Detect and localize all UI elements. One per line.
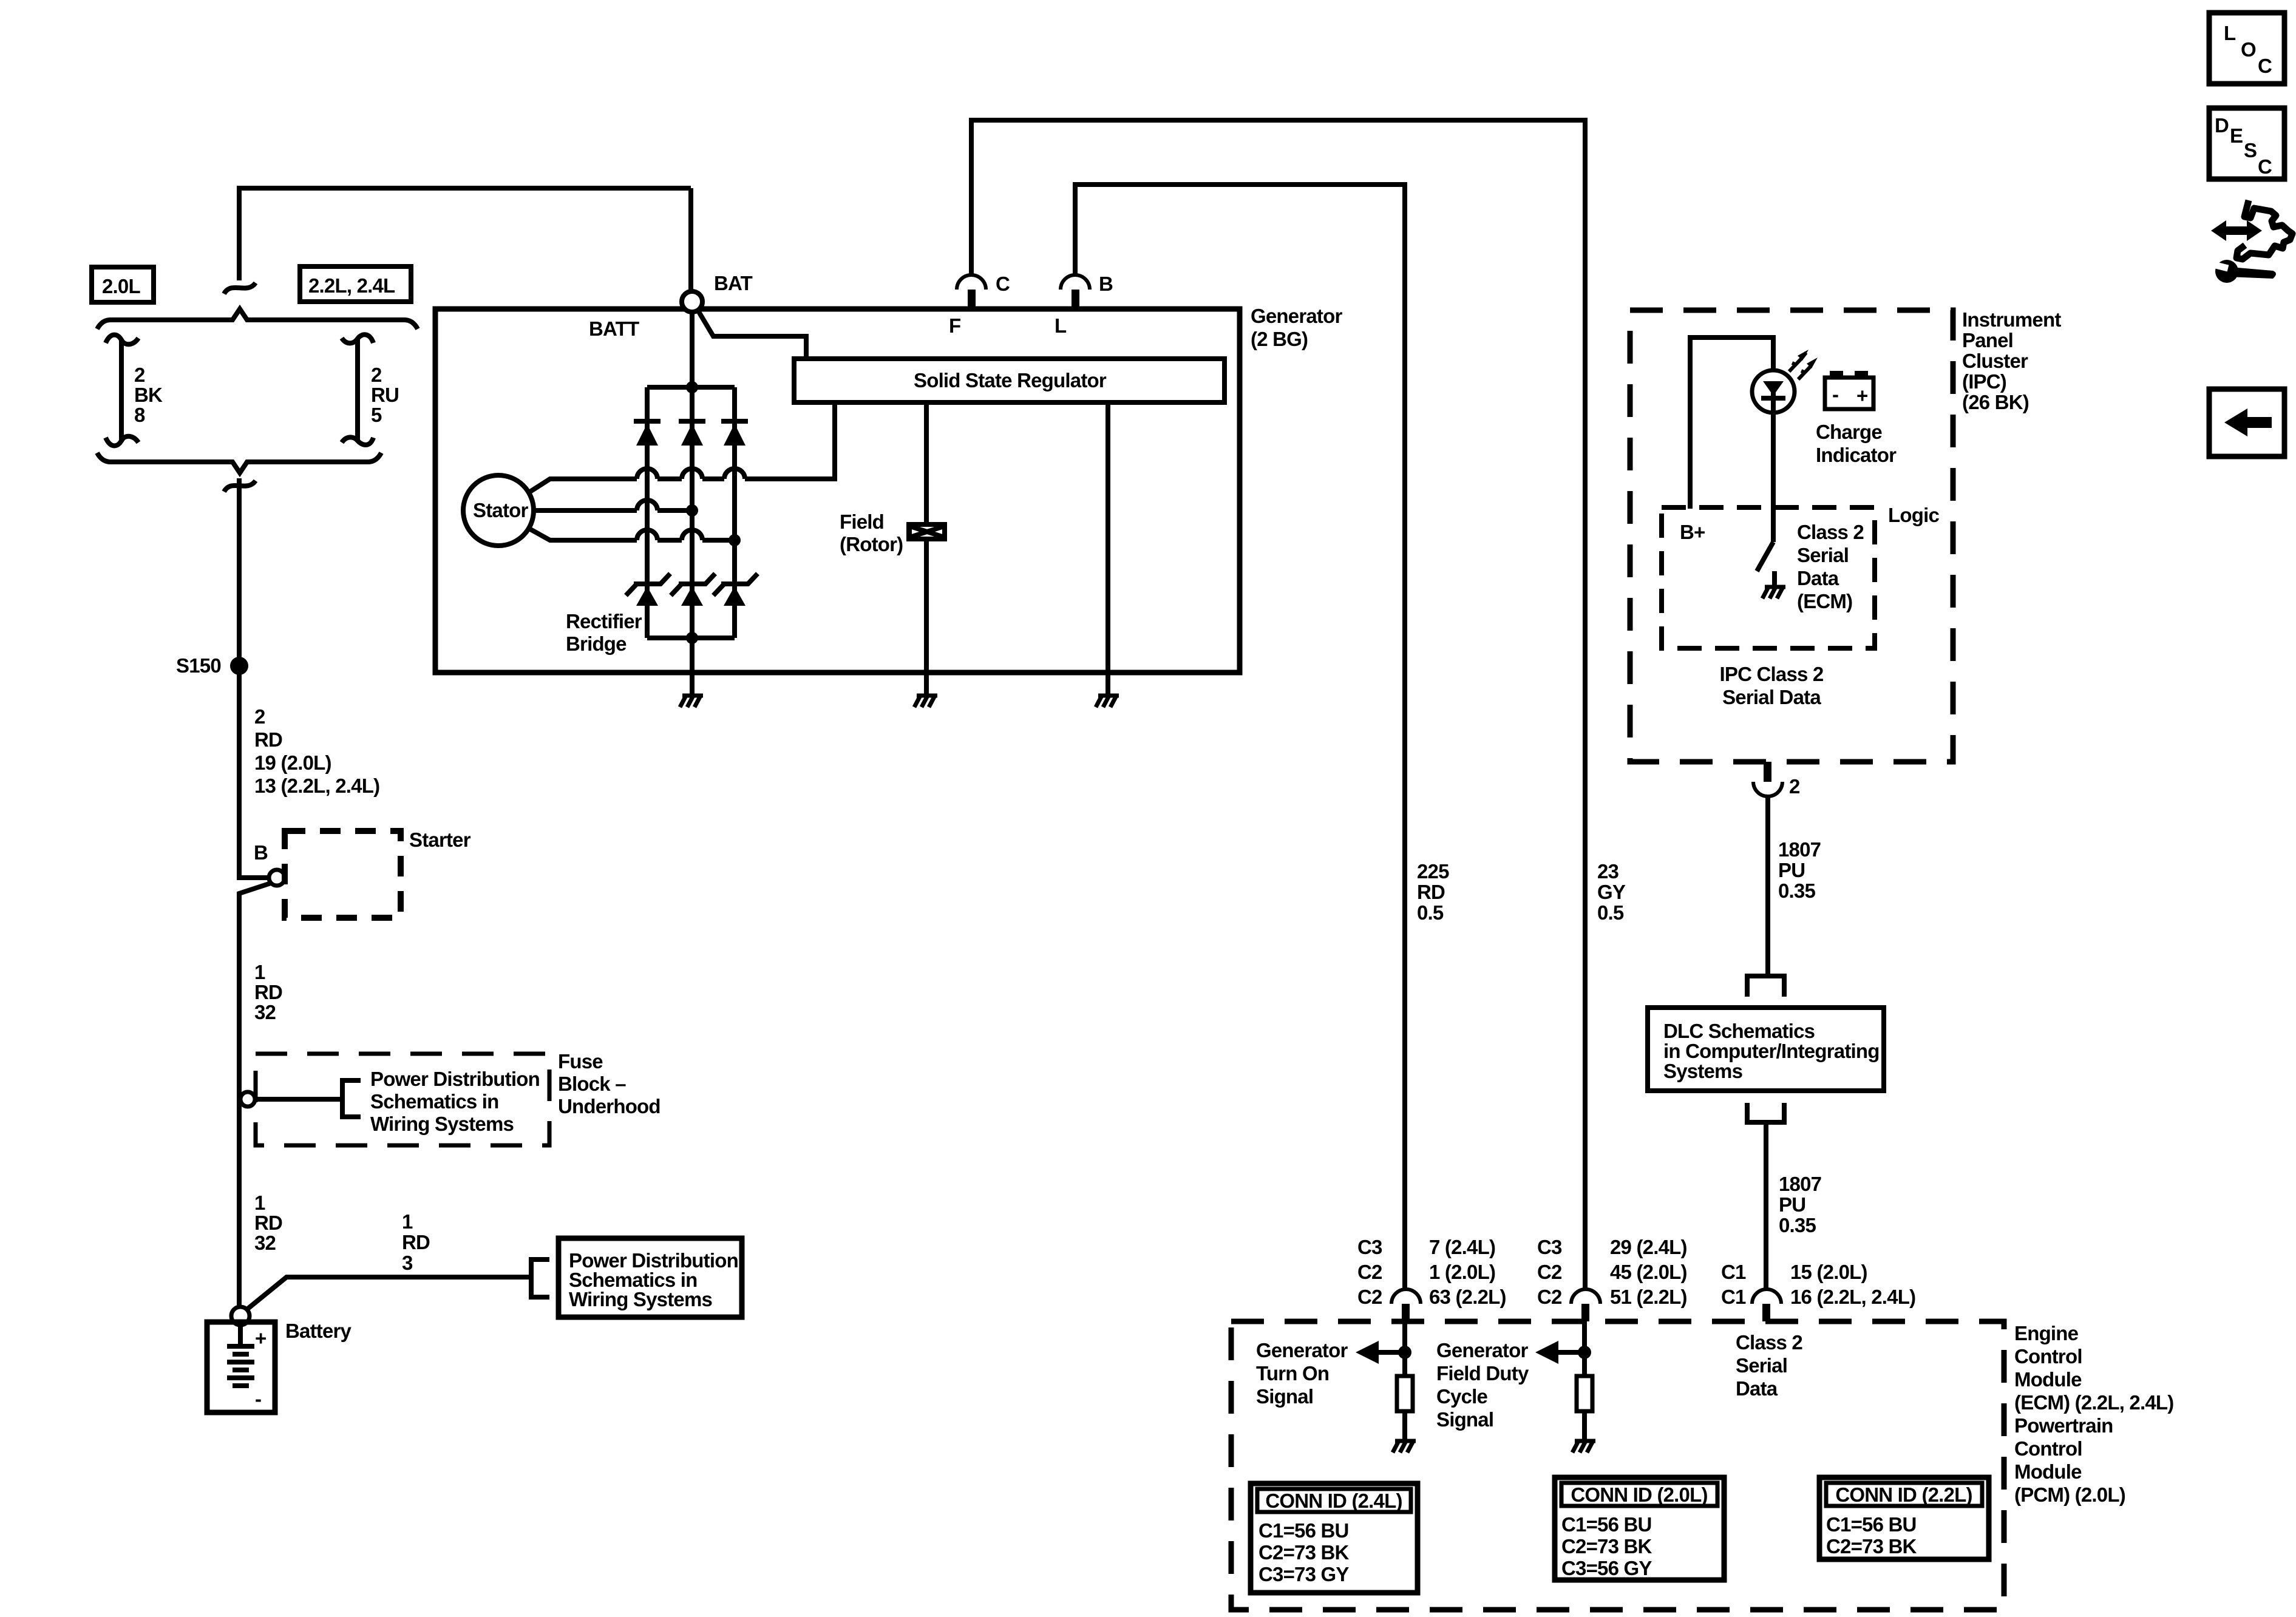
diode 2 (top middle) <box>679 421 705 446</box>
DESC hotlink icon box <box>2209 108 2284 179</box>
svg-text:1: 1 <box>254 1192 265 1214</box>
svg-text:32: 32 <box>254 1232 276 1254</box>
svg-text:L: L <box>1055 314 1067 337</box>
svg-text:29 (2.4L): 29 (2.4L) <box>1610 1236 1687 1258</box>
svg-text:Class 2: Class 2 <box>1736 1331 1802 1354</box>
power distribution schematics box <box>559 1238 742 1317</box>
CONN ID (2.4L) table <box>1251 1483 1418 1593</box>
svg-text:(26 BK): (26 BK) <box>1962 391 2029 413</box>
svg-text:B: B <box>254 841 268 864</box>
bracket to power distribution box <box>531 1259 549 1297</box>
wire from brace to S150 <box>237 478 242 666</box>
svg-text:IPC Class 2: IPC Class 2 <box>1720 663 1824 685</box>
svg-text:Powertrain: Powertrain <box>2014 1414 2113 1437</box>
svg-text:2.0L: 2.0L <box>102 275 140 297</box>
svg-text:Serial Data: Serial Data <box>1722 686 1821 708</box>
svg-text:Class 2: Class 2 <box>1797 521 1864 543</box>
svg-text:Starter: Starter <box>409 829 471 851</box>
svg-text:Field: Field <box>840 510 884 533</box>
ground (rectifier) <box>680 696 703 707</box>
power distribution reference text (fuse block) <box>370 1068 540 1135</box>
resistor 2 <box>1577 1376 1592 1411</box>
class 2 serial data ECM label <box>1797 521 1864 612</box>
svg-text:1 (2.0L): 1 (2.0L) <box>1429 1261 1495 1283</box>
hop phase2 over leg1 <box>637 500 657 510</box>
zener diode 1 (bottom left) <box>626 574 670 606</box>
wire into resistor 1 <box>1402 1321 1407 1376</box>
junction dot top bus <box>686 381 698 393</box>
LED light rays <box>1789 350 1818 379</box>
hop phase3 over leg1 <box>637 530 657 540</box>
svg-text:RD: RD <box>254 1212 282 1234</box>
wire break hook below brace <box>224 481 256 492</box>
bottom option brace <box>97 453 381 473</box>
right option bracket <box>342 334 373 445</box>
stator phase 3 wire <box>528 528 735 540</box>
starter dashed box <box>285 831 401 918</box>
field coil wire from regulator <box>924 402 929 696</box>
svg-text:GY: GY <box>1597 881 1626 903</box>
svg-text:C2: C2 <box>1537 1286 1562 1308</box>
svg-text:51 (2.2L): 51 (2.2L) <box>1610 1286 1687 1308</box>
rectifier left leg <box>645 387 650 638</box>
wire resistor 2 to ground <box>1582 1411 1587 1441</box>
svg-text:Systems: Systems <box>1663 1060 1742 1082</box>
svg-text:Battery: Battery <box>285 1320 352 1342</box>
svg-text:C1=56 BU: C1=56 BU <box>1826 1513 1917 1536</box>
rectifier bottom bus <box>647 636 735 640</box>
resistor 1 <box>1397 1376 1413 1411</box>
diode 1 (top left) <box>634 421 661 446</box>
splice S150 <box>176 654 248 677</box>
ECM connector pin labels column 1 <box>1357 1236 1506 1308</box>
svg-text:2: 2 <box>1789 775 1800 798</box>
svg-text:F: F <box>949 314 960 337</box>
wire from BAT junction to engine-option brace <box>239 188 691 280</box>
ECM dashed box <box>1231 1321 2004 1610</box>
svg-text:2: 2 <box>134 364 145 386</box>
svg-text:E: E <box>2230 124 2243 147</box>
svg-text:Indicator: Indicator <box>1816 444 1897 466</box>
ground (regulator) <box>1096 696 1119 707</box>
svg-text:-: - <box>1832 383 1838 405</box>
diode 3 (top right) <box>721 421 748 446</box>
generator box <box>435 309 1240 673</box>
battery box and cells <box>207 1322 275 1412</box>
svg-text:Wiring Systems: Wiring Systems <box>370 1113 514 1135</box>
hop phase1 over leg3 <box>724 469 745 479</box>
svg-text:19 (2.0L): 19 (2.0L) <box>254 751 331 774</box>
svg-text:Engine: Engine <box>2014 1322 2079 1344</box>
svg-text:S150: S150 <box>176 654 221 677</box>
svg-text:15 (2.0L): 15 (2.0L) <box>1790 1261 1867 1283</box>
wire label 1807 PU 0.35 (lower) <box>1779 1173 1821 1236</box>
rectifier right leg <box>732 387 737 638</box>
ECM connector 1 <box>1391 1289 1421 1321</box>
charge indicator LED <box>1752 370 1795 413</box>
svg-text:C2: C2 <box>1357 1261 1382 1283</box>
solid state regulator box <box>794 359 1224 402</box>
svg-text:1: 1 <box>254 961 265 983</box>
stator phase 2 wire <box>534 508 692 513</box>
hop phase1 over leg1 <box>637 469 657 479</box>
svg-text:Schematics in: Schematics in <box>370 1090 499 1113</box>
svg-text:PU: PU <box>1779 1193 1805 1216</box>
svg-text:8: 8 <box>134 404 145 426</box>
svg-text:RD: RD <box>1417 881 1445 903</box>
svg-text:+: + <box>255 1327 266 1349</box>
svg-text:RD: RD <box>254 981 282 1003</box>
svg-text:Charge: Charge <box>1816 421 1882 443</box>
wire battery to power distribution <box>247 1277 531 1309</box>
svg-text:Cycle: Cycle <box>1436 1385 1488 1408</box>
turn on signal arrow <box>1356 1341 1405 1364</box>
ECM connector pin labels column 3 <box>1721 1261 1915 1308</box>
switch blade <box>1757 542 1773 571</box>
main wire BAT to rectifier and ground <box>690 312 695 696</box>
svg-text:Stator: Stator <box>473 499 529 521</box>
wire label 2 RD 19 13 <box>254 705 379 797</box>
svg-text:2: 2 <box>254 705 265 728</box>
ECM connector pin labels column 2 <box>1537 1236 1687 1308</box>
junction dot 1 <box>1398 1346 1411 1359</box>
wire top run to BAT terminal <box>688 188 693 291</box>
svg-text:C1=56 BU: C1=56 BU <box>1258 1519 1349 1542</box>
svg-text:Control: Control <box>2014 1345 2082 1368</box>
svg-text:C2: C2 <box>1537 1261 1562 1283</box>
svg-text:RU: RU <box>371 384 399 406</box>
svg-text:2.2L, 2.4L: 2.2L, 2.4L <box>308 274 395 297</box>
svg-text:C1: C1 <box>1721 1261 1746 1283</box>
svg-text:C3: C3 <box>1357 1236 1382 1258</box>
battery icon in IPC <box>1825 371 1873 409</box>
svg-text:5: 5 <box>371 404 382 426</box>
svg-text:1807: 1807 <box>1778 838 1821 861</box>
svg-text:Generator: Generator <box>1256 1339 1348 1361</box>
wire fuse block to battery <box>237 1099 242 1307</box>
svg-text:Generator: Generator <box>1436 1339 1528 1361</box>
svg-text:0.35: 0.35 <box>1778 880 1815 902</box>
svg-text:BATT: BATT <box>589 317 639 340</box>
svg-text:CONN ID (2.0L): CONN ID (2.0L) <box>1571 1483 1707 1506</box>
wire label 1 RD 32 <box>254 961 282 1023</box>
regulator right ground wire <box>1106 402 1110 696</box>
svg-text:1: 1 <box>402 1210 413 1233</box>
svg-text:(ECM) (2.2L, 2.4L): (ECM) (2.2L, 2.4L) <box>2014 1391 2173 1414</box>
svg-text:Bridge: Bridge <box>566 632 627 655</box>
left option bracket <box>106 335 138 446</box>
terminal C connector at generator <box>957 273 1010 310</box>
ground (resistor 2) <box>1572 1441 1595 1453</box>
svg-text:0.5: 0.5 <box>1417 901 1444 924</box>
ground (resistor 1) <box>1393 1441 1416 1453</box>
svg-text:C2: C2 <box>1357 1286 1382 1308</box>
svg-text:Rectifier: Rectifier <box>566 610 642 632</box>
svg-text:C1=56 BU: C1=56 BU <box>1561 1513 1652 1536</box>
svg-text:C2=73 BK: C2=73 BK <box>1561 1535 1652 1558</box>
svg-text:Data: Data <box>1736 1377 1778 1400</box>
svg-text:23: 23 <box>1597 860 1619 883</box>
svg-text:0.5: 0.5 <box>1597 901 1624 924</box>
svg-text:Signal: Signal <box>1436 1408 1493 1431</box>
charge indicator label <box>1816 421 1897 466</box>
wire generator F to ECM (23 GY) <box>971 120 1585 1289</box>
svg-text:(IPC): (IPC) <box>1962 370 2006 393</box>
svg-text:D: D <box>2215 114 2229 137</box>
wire label 1 RD 32 (lower) <box>254 1192 282 1254</box>
junction dot 2 <box>1578 1346 1591 1359</box>
svg-text:0.35: 0.35 <box>1779 1214 1816 1236</box>
DLC schematics box <box>1648 1008 1884 1091</box>
logic dashed box <box>1662 507 1875 648</box>
class 2 serial data label (ECM) <box>1736 1331 1802 1400</box>
hop phase3 over main <box>682 530 702 540</box>
wire DLC to ECM <box>1764 1122 1768 1289</box>
zener diode 2 (bottom middle) <box>671 574 715 606</box>
svg-text:C2=73 BK: C2=73 BK <box>1258 1541 1350 1564</box>
svg-text:32: 32 <box>254 1001 276 1023</box>
CONN ID (2.0L) table <box>1555 1477 1724 1580</box>
svg-text:B+: B+ <box>1680 521 1705 543</box>
fuse block dashed box <box>256 1054 549 1145</box>
svg-text:2: 2 <box>371 364 382 386</box>
svg-text:Control: Control <box>2014 1437 2082 1460</box>
wire break hook above brace <box>224 283 256 294</box>
wire to power distribution bracket <box>255 1097 342 1102</box>
svg-text:C3=73 GY: C3=73 GY <box>1258 1563 1349 1585</box>
svg-text:225: 225 <box>1417 860 1449 883</box>
wire into resistor 2 <box>1582 1321 1587 1376</box>
bracket to power distribution schematics <box>342 1080 361 1117</box>
svg-text:Data: Data <box>1797 567 1839 589</box>
svg-text:Field Duty: Field Duty <box>1436 1362 1529 1385</box>
svg-text:BK: BK <box>134 384 163 406</box>
svg-text:Turn On: Turn On <box>1256 1362 1329 1385</box>
IPC name label <box>1962 308 2061 413</box>
svg-text:B: B <box>1099 273 1113 295</box>
fuse block label <box>558 1050 661 1117</box>
svg-text:45 (2.0L): 45 (2.0L) <box>1610 1261 1687 1283</box>
stator circle <box>463 475 534 546</box>
LOC hotlink icon box <box>2209 13 2284 84</box>
svg-text:CONN ID (2.4L): CONN ID (2.4L) <box>1265 1490 1402 1512</box>
svg-text:Solid State Regulator: Solid State Regulator <box>914 369 1107 392</box>
top option brace <box>97 309 418 329</box>
wire generator L to ECM (225 RD) <box>1075 185 1405 1289</box>
instrument panel cluster dashed box <box>1630 310 1953 762</box>
wire BATT jog to regulator <box>698 311 806 359</box>
svg-text:(PCM) (2.0L): (PCM) (2.0L) <box>2014 1483 2125 1506</box>
svg-text:S: S <box>2244 139 2257 161</box>
svg-text:in Computer/Integrating: in Computer/Integrating <box>1663 1040 1880 1062</box>
field duty arrow <box>1535 1341 1584 1364</box>
wire label 1 RD 3 <box>402 1210 430 1274</box>
wire size label 2 RU 5 <box>371 364 399 426</box>
svg-text:Fuse: Fuse <box>558 1050 603 1073</box>
field rotor label <box>840 510 903 555</box>
hop phase1 over main <box>682 469 702 479</box>
svg-text:CONN ID (2.2L): CONN ID (2.2L) <box>1835 1483 1972 1506</box>
svg-text:-: - <box>255 1388 261 1410</box>
svg-text:3: 3 <box>402 1252 413 1274</box>
DLC top bracket <box>1747 976 1784 997</box>
fuse block terminal circle <box>240 1092 255 1107</box>
wire LED to switch <box>1771 413 1776 542</box>
DLC bottom bracket <box>1747 1103 1784 1122</box>
svg-text:Instrument: Instrument <box>1962 308 2061 331</box>
terminal B connector at generator <box>1061 273 1113 310</box>
svg-text:C: C <box>2258 155 2272 178</box>
svg-text:Panel: Panel <box>1962 329 2013 351</box>
svg-text:L: L <box>2224 22 2236 44</box>
wire size label 2 BK 8 <box>134 364 163 426</box>
back arrow icon box <box>2209 389 2284 456</box>
junction dot bottom bus <box>686 632 698 644</box>
svg-text:C3=56 GY: C3=56 GY <box>1561 1557 1652 1579</box>
rectifier bridge label <box>566 610 642 655</box>
svg-text:Logic: Logic <box>1888 504 1939 526</box>
B+ feed loop wire <box>1690 337 1773 509</box>
wire label 23 GY 0.5 <box>1597 860 1626 924</box>
wire label 1807 PU 0.35 <box>1778 838 1821 902</box>
svg-text:O: O <box>2241 38 2256 61</box>
svg-text:Power Distribution: Power Distribution <box>370 1068 540 1090</box>
svg-text:C2=73 BK: C2=73 BK <box>1826 1535 1917 1558</box>
svg-text:Signal: Signal <box>1256 1385 1313 1408</box>
generator name label <box>1251 305 1342 350</box>
wire S150 to starter tap <box>239 666 268 878</box>
svg-text:63 (2.2L): 63 (2.2L) <box>1429 1286 1506 1308</box>
diagnostic tool icon (double arrow, panel outline, wrench) <box>2211 200 2292 283</box>
svg-text:(2 BG): (2 BG) <box>1251 328 1308 350</box>
svg-text:7 (2.4L): 7 (2.4L) <box>1429 1236 1495 1258</box>
zener diode 3 (bottom right) <box>713 574 758 606</box>
wire resistor 1 to ground <box>1402 1411 1407 1441</box>
svg-text:Cluster: Cluster <box>1962 350 2028 372</box>
ECM connector 2 <box>1571 1289 1600 1321</box>
svg-text:Underhood: Underhood <box>558 1095 661 1117</box>
wire tap from starter terminal <box>239 883 271 1099</box>
svg-text:C: C <box>2258 55 2272 77</box>
ECM connector 3 <box>1752 1289 1781 1321</box>
ground (field) <box>914 696 937 707</box>
svg-text:(Rotor): (Rotor) <box>840 533 903 555</box>
generator field duty cycle signal label <box>1436 1339 1529 1431</box>
svg-text:DLC Schematics: DLC Schematics <box>1663 1020 1815 1042</box>
svg-text:Block –: Block – <box>558 1073 626 1095</box>
ground inside logic box <box>1762 571 1785 598</box>
svg-text:Generator: Generator <box>1251 305 1342 327</box>
svg-text:Wiring Systems: Wiring Systems <box>569 1288 712 1310</box>
svg-text:RD: RD <box>402 1231 430 1253</box>
connector 2 at IPC <box>1753 762 1800 798</box>
junction dot phase3 <box>729 534 741 546</box>
svg-text:C: C <box>996 273 1010 295</box>
svg-text:Module: Module <box>2014 1368 2082 1391</box>
rectifier top bus <box>647 385 735 390</box>
svg-text:16 (2.2L, 2.4L): 16 (2.2L, 2.4L) <box>1790 1286 1915 1308</box>
generator turn on signal label <box>1256 1339 1348 1408</box>
wire IPC to DLC <box>1765 796 1770 976</box>
wire label 225 RD 0.5 <box>1417 860 1449 924</box>
svg-text:BAT: BAT <box>714 272 753 294</box>
svg-text:C1: C1 <box>1721 1286 1746 1308</box>
field coil symbol <box>906 522 947 541</box>
svg-text:+: + <box>1856 384 1867 407</box>
stator phase 1 wire with hops to regulator <box>528 402 835 493</box>
svg-text:13 (2.2L, 2.4L): 13 (2.2L, 2.4L) <box>254 775 379 797</box>
ECM name label <box>2014 1322 2173 1506</box>
junction dot phase2 <box>686 504 698 517</box>
battery positive terminal circle <box>231 1307 250 1325</box>
svg-text:(ECM): (ECM) <box>1797 590 1852 612</box>
IPC class 2 serial data label <box>1720 663 1824 708</box>
svg-text:Serial: Serial <box>1797 544 1849 566</box>
svg-text:1807: 1807 <box>1779 1173 1821 1195</box>
CONN ID (2.2L) table <box>1819 1477 1989 1559</box>
svg-text:PU: PU <box>1778 859 1805 881</box>
2.2L, 2.4L option label box <box>300 266 411 302</box>
BAT ring terminal <box>682 272 753 312</box>
svg-text:Serial: Serial <box>1736 1354 1787 1377</box>
svg-text:Module: Module <box>2014 1460 2082 1483</box>
svg-text:RD: RD <box>254 728 282 751</box>
svg-text:C3: C3 <box>1537 1236 1562 1258</box>
starter B terminal <box>254 841 285 886</box>
2.0L option label box <box>92 267 154 302</box>
